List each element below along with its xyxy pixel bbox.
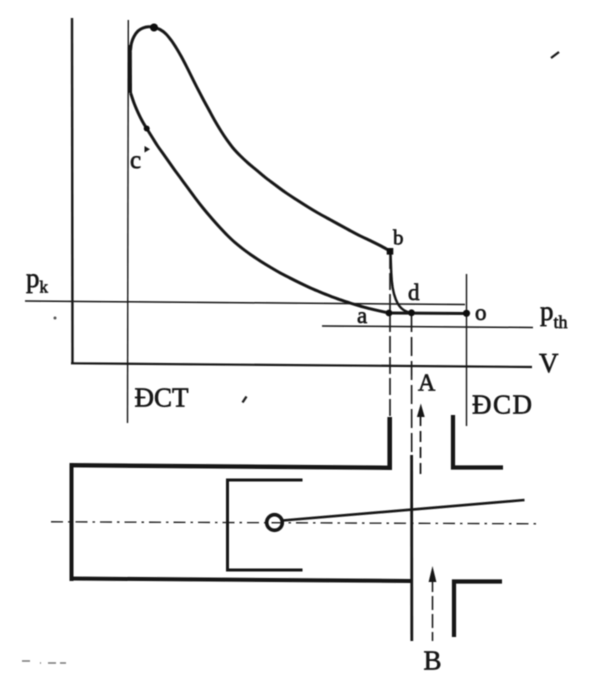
svg-text:V: V	[539, 348, 559, 378]
p axis (vertical)	[71, 18, 74, 363]
b dot	[387, 248, 394, 255]
svg-text:o: o	[475, 300, 487, 325]
cylinder bottom wall	[70, 579, 411, 582]
d dot	[408, 309, 415, 316]
c' dot	[144, 126, 150, 132]
svg-text:d: d	[408, 280, 420, 305]
arrow A head	[417, 404, 425, 418]
a dot	[386, 310, 393, 317]
cylinder top wall	[70, 465, 393, 468]
p_th level line	[322, 326, 533, 328]
projection line b-a (x=390)	[389, 252, 391, 417]
stray dot left	[54, 317, 57, 320]
p_k level line	[25, 301, 465, 305]
cylinder left wall	[70, 463, 74, 581]
projection line through d	[411, 313, 413, 455]
o dot	[463, 310, 470, 317]
combustion line at TDC (left closure)	[128, 45, 132, 93]
svg-text:B: B	[424, 646, 442, 676]
top channel right wall	[453, 415, 503, 468]
peak dot z	[150, 24, 158, 32]
svg-text:a: a	[357, 303, 367, 328]
V axis (horizontal)	[71, 363, 532, 367]
svg-text:A: A	[418, 371, 436, 397]
arrow B head	[429, 566, 437, 582]
centerline (dash-dot)	[51, 522, 539, 524]
blowdown curve b-d	[391, 252, 413, 313]
stray mark top right	[551, 52, 559, 58]
svg-text:pth: pth	[540, 296, 568, 332]
piston pin circle	[267, 515, 283, 531]
piston (bracket)	[228, 480, 303, 570]
exhaust port left wall (up from top wall)	[387, 417, 392, 468]
svg-text:b: b	[393, 226, 404, 250]
bottom channel right wall	[454, 582, 502, 638]
compression curve (c' - a)	[131, 93, 389, 313]
svg-text:ĐCT: ĐCT	[135, 383, 190, 413]
scavenge duct left wall (below d line)	[410, 455, 413, 641]
svg-text:pk: pk	[26, 263, 49, 297]
DCT line (vertical through TDC)	[127, 20, 130, 423]
a-o line (thick)	[389, 312, 467, 316]
connecting rod	[283, 500, 525, 521]
DCD line (vertical through BDC)	[466, 274, 468, 426]
arrow B shaft	[432, 578, 434, 641]
stray dot after DCT	[243, 397, 247, 403]
expansion curve (z - b)	[131, 27, 391, 251]
stray marks bottom left	[22, 661, 66, 663]
arrow A shaft (dashed)	[420, 415, 422, 477]
svg-text:ĐCD: ĐCD	[472, 390, 534, 420]
svg-text:c: c	[130, 147, 141, 174]
